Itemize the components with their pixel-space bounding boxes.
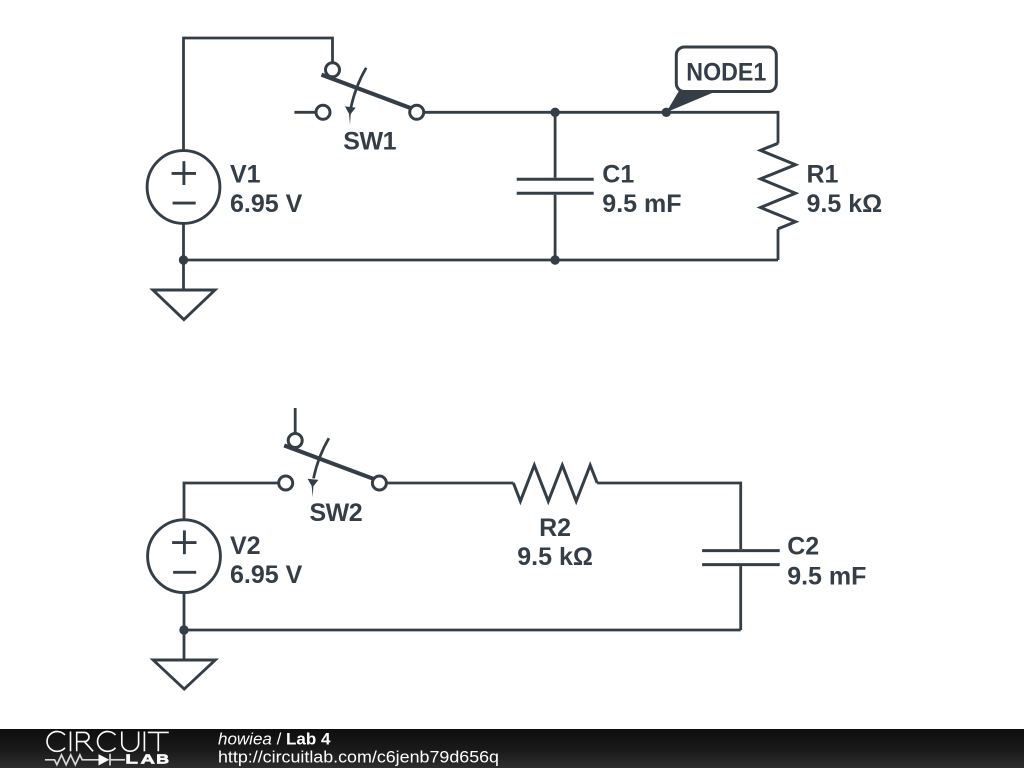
svg-text:6.95 V: 6.95 V [230,561,303,589]
CircuitLab logo: CIRCUIT [47,732,169,752]
svg-text:SW2: SW2 [310,499,363,527]
wire C2 bottom [739,566,742,630]
wire V2 bottom [183,593,186,660]
resistor R1 [761,143,796,229]
node NODE1 callout [666,47,776,112]
svg-text:R2: R2 [539,514,571,542]
wire R2 to C2 [597,483,741,549]
switch SW2 [279,434,387,498]
ground GND2 [153,660,215,689]
ground GND1 [153,290,215,320]
wire SW1 unused throw stub [294,111,316,114]
wire C1 bottom [554,195,557,260]
svg-text:9.5 mF: 9.5 mF [602,190,681,218]
svg-text:9.5 kΩ: 9.5 kΩ [807,190,883,218]
svg-text:NODE1: NODE1 [686,59,766,87]
svg-text:C1: C1 [602,160,634,188]
svg-text:R1: R1 [807,160,839,188]
wire SW2 to R2 [388,482,514,485]
voltage source V2 [148,520,221,593]
svg-text:howiea / Lab 4: howiea / Lab 4 [218,730,331,749]
capacitor C2 [702,551,780,565]
node NODE1 dot [662,108,671,117]
footer bar [0,729,1024,768]
svg-text:9.5 mF: 9.5 mF [787,563,866,591]
wire V2 to SW2 [184,483,278,520]
junction dot C1 bottom [550,255,559,264]
wire R1 bottom [777,229,780,260]
CircuitLab logo: resistor-diode line [45,754,125,766]
svg-text:9.5 kΩ: 9.5 kΩ [517,543,593,571]
switch SW1 [316,63,424,125]
CircuitLab logo: LAB [127,755,169,764]
wire C1 top [554,112,557,177]
wire V1 top to SW1 [184,38,333,150]
svg-text:SW1: SW1 [343,127,396,155]
wire bottom rail 1 [184,259,779,262]
wire SW1 to R1 (NODE1 net) [424,112,778,143]
svg-text:V2: V2 [230,532,261,560]
svg-text:6.95 V: 6.95 V [230,190,303,218]
voltage source V1 [147,151,220,224]
svg-text:V1: V1 [230,161,261,189]
CircuitLab logo: diode [99,754,110,765]
junction dot V1 bottom [179,255,188,264]
wire bottom rail 2 [184,629,741,632]
svg-text:C2: C2 [787,533,819,561]
junction dot V2 bottom [179,625,188,634]
wire SW2 top stub [294,408,297,434]
junction dot C1 top [550,108,559,117]
resistor R2 [513,465,597,501]
capacitor C1 [517,179,594,193]
svg-text:http://circuitlab.com/c6jenb79: http://circuitlab.com/c6jenb79d656q [218,748,499,767]
wire V1 bottom [182,224,185,291]
